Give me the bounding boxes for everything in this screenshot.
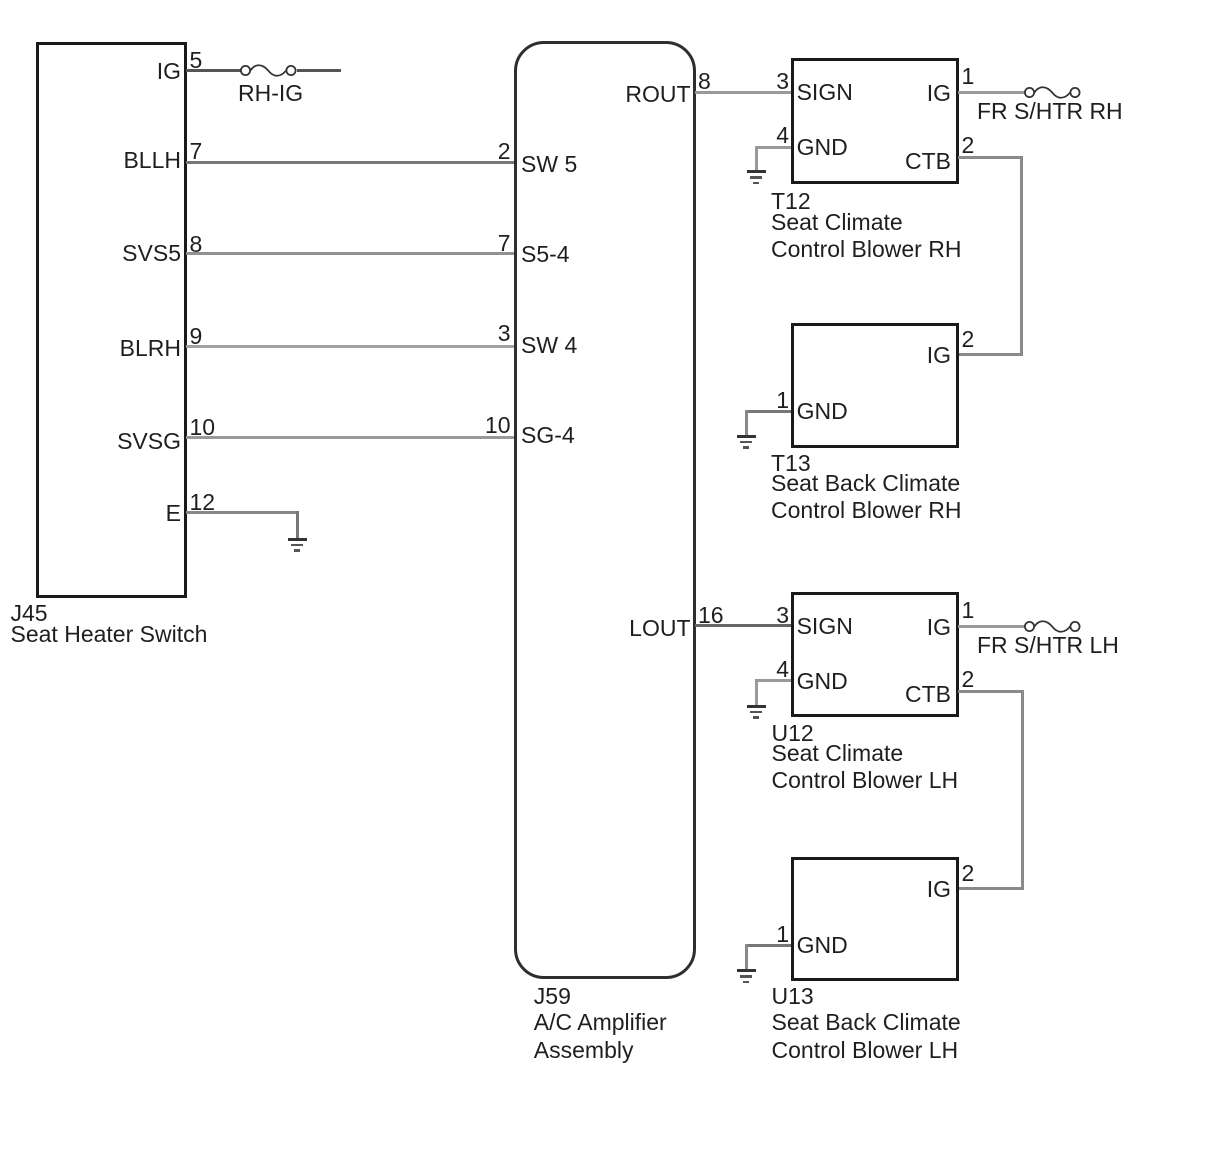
U12 pin number 1 [962, 599, 975, 622]
J45 pin label SVSG [117, 430, 181, 453]
net label FR S/HTR RH [977, 100, 1123, 123]
T12 name label [771, 190, 811, 213]
U13 pin number 2 [962, 862, 975, 885]
J45 pin number 9 [190, 325, 203, 348]
U12 GND wire vertical [755, 679, 758, 706]
U13 pin label GND [797, 934, 848, 957]
ground symbol for U12 [747, 705, 766, 708]
J45 pin label BLRH [120, 337, 181, 360]
T13 description line 2 [771, 499, 961, 522]
wire U12 IG to FR S/HTR LH [958, 625, 1024, 628]
J59 pin label SW 5 [521, 153, 577, 176]
U13 description line 2 [772, 1039, 959, 1062]
U13 pin label IG [927, 878, 951, 901]
wire E horizontal [186, 511, 299, 514]
wire into T13 IG horizontal [958, 353, 1023, 356]
T12 pin number 3 [776, 70, 789, 93]
T13 GND wire vertical [745, 410, 748, 437]
J59 pin label SG-4 [521, 424, 575, 447]
J59 name label [534, 985, 571, 1008]
T12 pin number 1 [962, 65, 975, 88]
wire BLLH (J45 pin 7 to J59 SW 5) [186, 161, 515, 164]
T12 description line 1 [771, 211, 903, 234]
wire T12 CTB vertical down to T13 IG [1020, 156, 1023, 356]
wire SVS5 (J45 pin 8 to J59 S5-4) [186, 252, 515, 255]
T12 GND wire horizontal [755, 146, 791, 149]
wire T12 IG to FR S/HTR RH [958, 91, 1024, 94]
J45 pin number 7 [190, 140, 203, 163]
J45 description label [11, 623, 208, 646]
J59 description line 2 [534, 1039, 634, 1062]
U13 GND wire vertical [745, 944, 748, 971]
J59 pin label SW 4 [521, 334, 577, 357]
wire T12 CTB horizontal [958, 156, 1023, 159]
J59 pin number 8 [698, 70, 711, 93]
U12 pin label GND [797, 670, 848, 693]
T13 pin label GND [797, 400, 848, 423]
U12 pin number 2 [962, 668, 975, 691]
U13 GND wire horizontal [745, 944, 791, 947]
T13 pin label IG [927, 344, 951, 367]
T13 description line 1 [771, 472, 960, 495]
J59 pin number 10 [485, 414, 511, 437]
J59 pin label S5-4 [521, 243, 570, 266]
T12 pin number 4 [776, 124, 789, 147]
T12 description line 2 [771, 238, 961, 261]
J59 pin label LOUT [629, 617, 690, 640]
U12 pin number 3 [776, 604, 789, 627]
ground symbol for J45 E [288, 538, 307, 541]
U12 pin label CTB [905, 683, 951, 706]
connector symbol FR S/HTR LH [1023, 615, 1085, 638]
J59 pin number 2 [498, 140, 511, 163]
U12 GND wire horizontal [755, 679, 791, 682]
wire BLRH (J45 pin 9 to J59 SW 4) [186, 345, 515, 348]
wire U12 CTB vertical down to U13 IG [1021, 690, 1024, 891]
T12 pin label SIGN [797, 81, 853, 104]
ground symbol for T13 [737, 435, 756, 438]
U13 name label [772, 985, 814, 1008]
U12 description line 1 [772, 742, 904, 765]
U13 description line 1 [772, 1011, 961, 1034]
J59 description line 1 [534, 1011, 667, 1034]
U12 pin label SIGN [797, 615, 853, 638]
T12 GND wire vertical [755, 146, 758, 172]
component T12 Seat Climate Control Blower RH (box) [791, 58, 959, 184]
U13 pin number 1 [776, 923, 789, 946]
ground symbol for U13 [737, 969, 756, 972]
J45 pin label BLLH [123, 149, 181, 172]
J45 pin number 10 [190, 416, 216, 439]
connector J59 A/C Amplifier Assembly (rounded box) [514, 41, 696, 979]
wire RH-IG continuation (right segment) [297, 69, 342, 72]
connector symbol FR S/HTR RH [1023, 81, 1085, 104]
wire ROUT (J59 pin 8 to T12 SIGN) [695, 91, 791, 94]
wire U12 CTB horizontal [958, 690, 1024, 693]
T12 pin label GND [797, 136, 848, 159]
J59 pin number 3 [498, 322, 511, 345]
J45 pin label SVS5 [122, 242, 181, 265]
wire into U13 IG horizontal [958, 887, 1024, 890]
component U12 Seat Climate Control Blower LH (box) [791, 592, 959, 717]
J45 pin label E [166, 502, 181, 525]
U12 pin number 4 [776, 658, 789, 681]
J45 pin number 8 [190, 233, 203, 256]
U12 name label [772, 722, 814, 745]
U12 description line 2 [772, 769, 959, 792]
J45 pin label IG [157, 60, 181, 83]
J45 pin number 5 [190, 49, 203, 72]
net label FR S/HTR LH [977, 634, 1119, 657]
wire E vertical stub [296, 511, 299, 538]
J59 pin label ROUT [625, 83, 690, 106]
J45 pin number 12 [190, 491, 216, 514]
component U13 Seat Back Climate Control Blower LH (box) [791, 857, 959, 981]
wire IG to RH-IG connector (left segment) [186, 69, 241, 72]
T12 pin label CTB [905, 150, 951, 173]
wire LOUT (J59 pin 16 to U12 SIGN) [695, 624, 791, 627]
T13 pin number 2 [962, 328, 975, 351]
connector J45 Seat Heater Switch (box) [36, 42, 187, 598]
J45 name label [11, 602, 48, 625]
J59 pin number 16 [698, 604, 724, 627]
connector symbol RH-IG [239, 59, 301, 82]
net label RH-IG [238, 82, 303, 105]
U12 pin label IG [927, 616, 951, 639]
T13 pin number 1 [776, 389, 789, 412]
component T13 Seat Back Climate Control Blower RH (box) [791, 323, 959, 449]
T12 pin label IG [927, 82, 951, 105]
J59 pin number 7 [498, 232, 511, 255]
wire SVSG (J45 pin 10 to J59 SG-4) [186, 436, 515, 439]
T12 pin number 2 [962, 134, 975, 157]
T13 name label [771, 452, 811, 475]
T13 GND wire horizontal [745, 410, 791, 413]
ground symbol for T12 [747, 170, 766, 173]
